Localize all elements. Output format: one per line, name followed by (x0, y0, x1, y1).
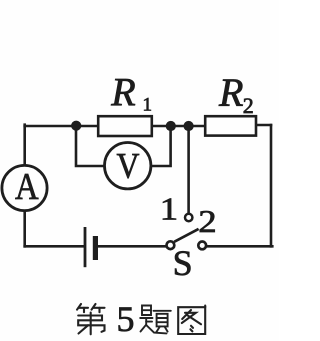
svg-text:5: 5 (117, 299, 135, 339)
wire battery to switch pivot (98, 245, 165, 248)
caption character 题 (drawn) (140, 306, 171, 334)
wire top-left segment (25, 125, 98, 128)
wire voltmeter branch left (down then right) (76, 126, 105, 166)
battery short thick plate (93, 236, 98, 260)
svg-text:1: 1 (143, 95, 153, 116)
wire voltmeter branch right (right then up) (151, 126, 171, 166)
switch terminal 2 contact circle (198, 242, 206, 250)
svg-text:1: 1 (160, 192, 178, 227)
wire from node to switch terminal 1 (187, 126, 190, 212)
caption character 图 (drawn) (178, 306, 205, 334)
wire left vertical (23, 125, 26, 247)
caption character 第 (drawn) (77, 304, 105, 334)
switch pivot contact circle (167, 241, 175, 249)
wire R2 to top-right corner (256, 124, 271, 127)
resistor R2 (205, 116, 256, 135)
battery long plate (84, 227, 87, 267)
junction dot left of R1 (71, 121, 81, 131)
resistor R1 (98, 116, 152, 136)
junction dot at terminal-1 branch (184, 121, 194, 131)
switch terminal 1 contact circle (185, 214, 192, 221)
voltmeter V (105, 143, 151, 189)
svg-text:2: 2 (243, 93, 254, 118)
svg-text:V: V (116, 147, 139, 186)
ammeter A (2, 165, 47, 210)
svg-text:A: A (15, 165, 39, 208)
junction dot at voltmeter branch right (166, 121, 176, 131)
switch blade (174, 229, 198, 242)
wire bottom-right segment (207, 245, 272, 248)
svg-text:S: S (173, 243, 193, 283)
svg-text:R: R (110, 69, 135, 114)
wire bottom-left segment to battery (25, 245, 84, 248)
wire between R1 and R2 (152, 125, 205, 128)
wire right vertical (270, 125, 273, 246)
svg-text:R: R (218, 70, 243, 115)
svg-text:2: 2 (198, 204, 216, 239)
